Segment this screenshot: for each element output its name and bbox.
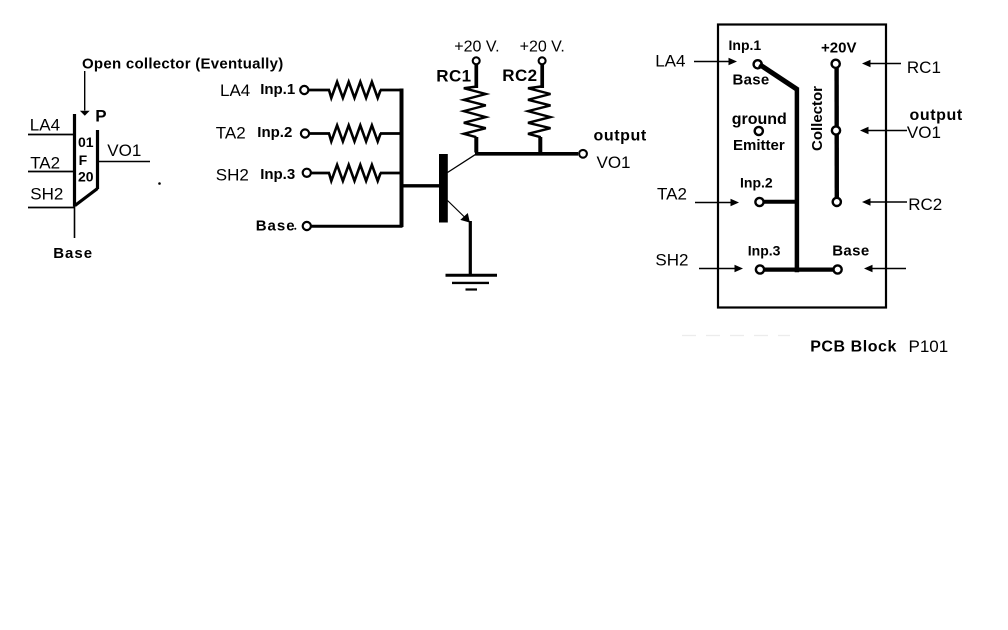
wire +20V to RC2 xyxy=(540,65,544,89)
node terminal Base xyxy=(303,222,311,230)
wire SH2 to U1 xyxy=(28,207,74,209)
resistor R2 xyxy=(329,125,381,141)
wire R2 to bus xyxy=(380,132,402,135)
wire R1 to bus xyxy=(380,89,402,92)
pad VO1 mid xyxy=(832,126,840,134)
svg-text:Emitter: Emitter xyxy=(733,137,785,154)
arrow SH2 into pcb xyxy=(699,265,743,273)
svg-text:VO1: VO1 xyxy=(107,141,141,160)
svg-text:TA2: TA2 xyxy=(30,153,60,172)
arrow Base into pcb bottom right xyxy=(864,265,906,273)
svg-text:01: 01 xyxy=(78,134,94,150)
wire Inp.2 to R2 xyxy=(310,132,331,135)
transistor Q1 base bar xyxy=(439,154,448,223)
svg-text:Open collector (Eventually): Open collector (Eventually) xyxy=(82,56,284,73)
svg-text:Base: Base xyxy=(53,245,93,262)
pad Inp.2 xyxy=(755,198,763,206)
faint erased streak xyxy=(682,335,790,337)
pad Base bottom xyxy=(834,265,842,273)
stray dot after Base xyxy=(294,228,296,230)
resistor RC2 xyxy=(528,87,551,138)
arrow RC1 into pcb xyxy=(862,60,901,68)
arrow from open-collector label to symbol top xyxy=(80,71,90,116)
wire Base to bus xyxy=(311,225,403,228)
svg-text:RC1: RC1 xyxy=(436,67,471,86)
svg-text:+20 V.: +20 V. xyxy=(520,39,565,56)
wire Inp.3 to R3 xyxy=(311,172,330,175)
svg-text:SH2: SH2 xyxy=(30,184,63,203)
wire bus to transistor base xyxy=(400,184,440,187)
pad Inp.1 xyxy=(754,60,762,68)
svg-text:TA2: TA2 xyxy=(216,124,246,143)
svg-text:F: F xyxy=(79,152,88,168)
wire RC2 to collector rail xyxy=(538,137,542,153)
PCB block P101 outline xyxy=(718,25,886,308)
svg-text:Collector: Collector xyxy=(809,86,826,151)
svg-text:VO1: VO1 xyxy=(597,153,631,172)
trace +20V vertical xyxy=(834,65,839,198)
wire VO1 from U1 xyxy=(99,161,150,163)
svg-text:Base: Base xyxy=(733,72,770,89)
node terminal Inp.3 xyxy=(303,169,311,177)
IC U1 right bar xyxy=(96,130,99,189)
svg-text:RC2: RC2 xyxy=(908,195,942,214)
trace Inp.2 horizontal xyxy=(764,200,799,204)
arrow TA2 into pcb xyxy=(695,199,739,207)
svg-text:PCB Block: PCB Block xyxy=(810,339,897,356)
svg-text:LA4: LA4 xyxy=(30,115,60,134)
svg-text:P: P xyxy=(95,107,106,126)
wire R3 to bus xyxy=(380,172,402,175)
pad +20V xyxy=(832,60,840,68)
trace Inp.3 to Base xyxy=(764,268,834,272)
svg-text:+20 V.: +20 V. xyxy=(454,39,499,56)
svg-text:P101: P101 xyxy=(909,337,949,356)
svg-text:Inp.2: Inp.2 xyxy=(257,124,292,141)
wire RC1 to collector rail xyxy=(474,137,478,153)
arrow LA4 into pcb xyxy=(694,58,737,66)
trace vertical xyxy=(795,88,800,273)
svg-text:Inp.1: Inp.1 xyxy=(729,37,762,53)
svg-text:TA2: TA2 xyxy=(657,185,687,204)
svg-text:SH2: SH2 xyxy=(655,250,688,269)
svg-text:+20V: +20V xyxy=(821,40,856,57)
wire Inp.1 to R1 xyxy=(309,89,330,92)
transistor Q1 emitter lead with arrow xyxy=(448,201,470,223)
pad ground/emitter xyxy=(755,127,763,135)
svg-text:Base: Base xyxy=(832,243,869,260)
wire LA4 to U1 xyxy=(28,134,74,136)
wire vertical bus joining inputs xyxy=(400,89,404,228)
svg-text:Inp.1: Inp.1 xyxy=(260,81,295,98)
pad RC2 bottom xyxy=(833,198,841,206)
arrow VO1 into pcb xyxy=(860,127,907,135)
svg-text:Inp.3: Inp.3 xyxy=(748,243,781,259)
wire TA2 to U1 xyxy=(28,171,74,173)
node terminal Inp.1 xyxy=(300,86,308,94)
node terminal VO1 output xyxy=(579,150,587,158)
svg-text:VO1: VO1 xyxy=(907,123,941,142)
resistor RC1 xyxy=(464,87,486,138)
svg-text:output: output xyxy=(594,128,647,145)
pad Inp.3 xyxy=(756,265,764,273)
svg-text:ground: ground xyxy=(732,111,787,128)
wire collector rail xyxy=(475,152,578,156)
svg-text:RC1: RC1 xyxy=(907,58,941,77)
IC U1 left bar xyxy=(73,114,76,207)
node terminal Inp.2 xyxy=(301,129,309,137)
resistor R1 xyxy=(329,82,381,98)
wire +20V to RC1 xyxy=(474,65,478,89)
IC U1 bottom diagonal edge xyxy=(75,189,98,206)
node terminal +20V RC1 xyxy=(473,57,480,64)
transistor Q1 collector lead xyxy=(448,154,477,173)
node terminal +20V RC2 xyxy=(539,57,546,64)
wire Base below U1 xyxy=(74,207,76,239)
resistor R3 xyxy=(329,165,381,181)
stray dot xyxy=(158,182,161,185)
trace Inp.1 diagonal xyxy=(760,65,798,90)
svg-text:output: output xyxy=(910,107,963,124)
svg-text:LA4: LA4 xyxy=(655,52,685,71)
svg-text:20: 20 xyxy=(78,169,94,185)
ground xyxy=(446,275,498,289)
svg-text:Base: Base xyxy=(256,218,296,235)
svg-text:LA4: LA4 xyxy=(220,81,250,100)
svg-text:SH2: SH2 xyxy=(216,166,249,185)
svg-text:Inp.2: Inp.2 xyxy=(740,175,773,191)
svg-text:Inp.3: Inp.3 xyxy=(260,166,295,183)
svg-text:RC2: RC2 xyxy=(502,66,537,85)
arrow RC2 into pcb xyxy=(862,198,907,206)
wire emitter down xyxy=(469,221,472,275)
